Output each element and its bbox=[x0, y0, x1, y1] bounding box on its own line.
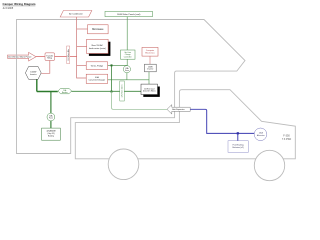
svg-text:Converter/Charger: Converter/Charger bbox=[89, 79, 106, 82]
wire: blue separator to alternator bbox=[190, 109, 254, 133]
svg-text:Camper Wiring Diagram: Camper Wiring Diagram bbox=[3, 2, 36, 6]
svg-text:Inverter: Inverter bbox=[147, 68, 153, 71]
wire: vents box to 12v riser and fuse A bbox=[108, 64, 127, 66]
ford batteries box bbox=[228, 141, 248, 153]
fuse B circle bbox=[47, 113, 55, 121]
svg-text:New 110 AC: New 110 AC bbox=[92, 44, 104, 47]
inverter hexagon bbox=[25, 67, 41, 80]
svg-text:Jul 9 2005: Jul 9 2005 bbox=[3, 8, 14, 10]
node: riser top bbox=[111, 64, 113, 66]
truck outline bbox=[75, 90, 295, 159]
svg-text:Fuse: Fuse bbox=[125, 70, 129, 72]
wire: pale green to battery separator bbox=[112, 92, 167, 110]
110 AC load center bbox=[87, 39, 111, 56]
node: riser at bus bbox=[111, 91, 113, 93]
wire: shore power arrow (behind camper wall) bbox=[8, 52, 37, 61]
wire: battery drop from bus bbox=[50, 92, 52, 114]
svg-text:110 Volt AC Shore Power: 110 Volt AC Shore Power bbox=[8, 56, 32, 59]
node: blue junction bbox=[237, 132, 239, 134]
svg-text:Microwave: Microwave bbox=[92, 28, 104, 31]
110 main breaker label bbox=[67, 46, 70, 64]
svg-text:Batteries (x2): Batteries (x2) bbox=[232, 146, 244, 149]
wire: 12V bus right segment bbox=[72, 90, 142, 92]
wire: AC trunk vertical from air conditioner bbox=[77, 17, 87, 78]
charge controller box bbox=[121, 50, 136, 59]
vents pumps box bbox=[86, 62, 107, 70]
svg-text:load center (main): load center (main) bbox=[89, 47, 106, 50]
svg-text:dist (Grn Wire): dist (Grn Wire) bbox=[143, 90, 156, 93]
wire: small inverter down to 12v box bbox=[148, 72, 150, 84]
wire: blue down to ford batteries bbox=[237, 133, 239, 140]
svg-text:7.3 PSD: 7.3 PSD bbox=[282, 138, 292, 141]
fuse A circle bbox=[123, 66, 130, 73]
svg-text:Relay: Relay bbox=[47, 58, 52, 60]
wire: stub to load center bbox=[77, 45, 87, 47]
battery separator arrow bbox=[167, 105, 190, 114]
wire: shore power line to transfer relay and main breaker bbox=[36, 56, 77, 58]
svg-text:110 Main Bkr: 110 Main Bkr bbox=[68, 49, 70, 61]
svg-text:Electronics: Electronics bbox=[145, 51, 154, 54]
12V main vertical label bbox=[120, 81, 125, 101]
wire: fuse A down to 12v feed bbox=[126, 73, 128, 80]
svg-text:160W Solar Panels (roof): 160W Solar Panels (roof) bbox=[117, 13, 141, 16]
wire: solar panel down to charge controller bbox=[126, 17, 128, 50]
svg-text:Fuse: Fuse bbox=[49, 118, 53, 120]
wire: charge controller to fuse bbox=[126, 59, 128, 66]
svg-text:Vents, Fridge: Vents, Fridge bbox=[91, 64, 104, 67]
wire: 12v feed horizontal bbox=[108, 79, 149, 81]
wire: transfer relay to inverter bbox=[41, 60, 50, 73]
svg-text:Controller: Controller bbox=[124, 56, 132, 59]
svg-text:Breaker: Breaker bbox=[62, 91, 68, 94]
wire: inverter down to 12V bus bbox=[36, 79, 38, 91]
12 VDC load dist box bbox=[141, 84, 160, 97]
wire: computer to small inverter bbox=[149, 56, 151, 64]
converter charger box bbox=[86, 74, 107, 83]
rear wheel bbox=[108, 149, 139, 180]
wire: fuse B to battery bbox=[50, 121, 52, 128]
air conditioner bbox=[60, 11, 92, 18]
camper battery box bbox=[42, 128, 61, 140]
wire: 12v riser bbox=[111, 65, 113, 91]
svg-text:Inverter: Inverter bbox=[30, 73, 37, 76]
svg-text:Batt Separator: Batt Separator bbox=[172, 108, 185, 111]
transfer relay bbox=[45, 53, 55, 61]
solar panel box (roof) bbox=[105, 11, 153, 16]
wire: stub to vents box bbox=[77, 64, 87, 66]
alternator circle bbox=[254, 128, 267, 141]
front wheel bbox=[254, 150, 284, 180]
svg-text:Battery: Battery bbox=[48, 135, 54, 138]
microwave bbox=[88, 25, 109, 34]
svg-text:12V Main (Grn): 12V Main (Grn) bbox=[121, 84, 124, 97]
svg-text:Alternator: Alternator bbox=[257, 134, 265, 137]
bus fuse hexagon bbox=[58, 88, 72, 94]
wire: 12V bus left segment bbox=[37, 91, 58, 93]
svg-text:Air Conditioner: Air Conditioner bbox=[69, 13, 83, 16]
wire: stub to microwave bbox=[77, 28, 88, 30]
camper outline bbox=[17, 20, 246, 154]
small inverter box bbox=[145, 64, 157, 72]
computer electronics box bbox=[142, 47, 158, 56]
